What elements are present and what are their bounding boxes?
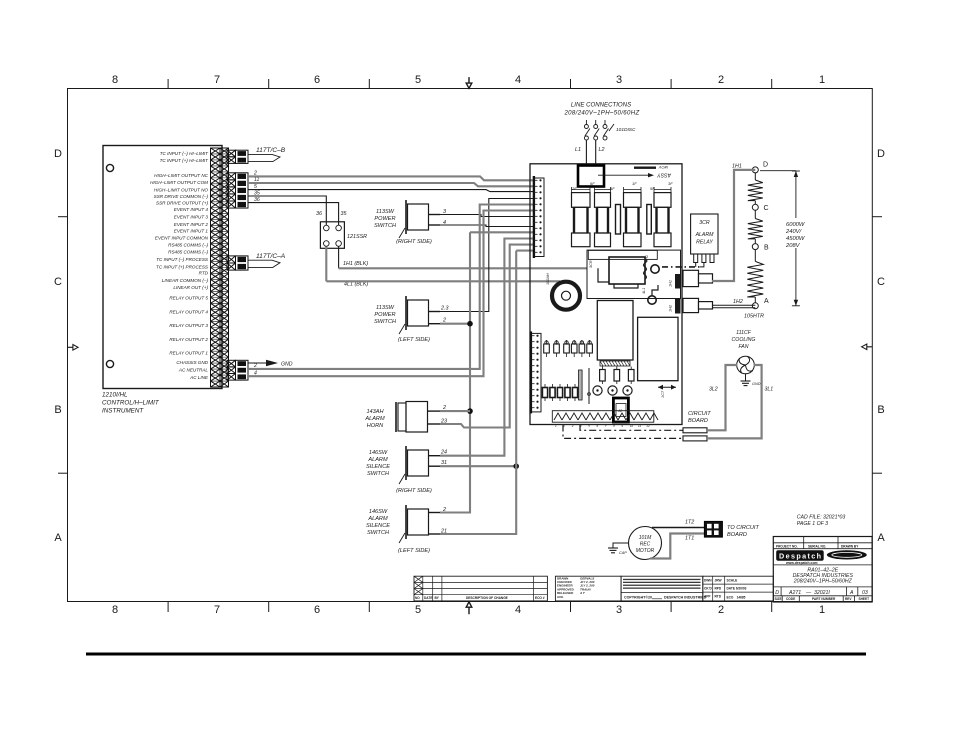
svg-text:(LEFT SIDE): (LEFT SIDE)	[398, 337, 430, 343]
svg-text:1CT: 1CT	[661, 390, 665, 398]
svg-text:ASSY: ASSY	[657, 172, 672, 178]
svg-text:INSTRUMENT: INSTRUMENT	[102, 407, 144, 414]
svg-text:3L2: 3L2	[709, 387, 718, 393]
svg-text:ALARM: ALARM	[364, 416, 385, 422]
svg-text:5F: 5F	[650, 186, 655, 191]
svg-text:A271: A271	[788, 590, 801, 596]
svg-text:101DISC: 101DISC	[616, 127, 636, 133]
svg-text:PROJECT NO.: PROJECT NO.	[776, 545, 798, 549]
svg-text:2: 2	[718, 604, 724, 616]
svg-text:36: 36	[254, 197, 260, 203]
svg-text:COPYRIGHT©: COPYRIGHT©	[624, 595, 648, 599]
svg-text:3L1: 3L1	[765, 387, 774, 393]
svg-text:ALARM: ALARM	[367, 516, 388, 522]
svg-text:BOARD: BOARD	[727, 532, 747, 538]
svg-text:HIGH–LIMIT OUTPUT NC: HIGH–LIMIT OUTPUT NC	[154, 173, 209, 178]
svg-text:208/240V–1PH–50/60HZ: 208/240V–1PH–50/60HZ	[793, 579, 853, 585]
svg-text:SWITCH: SWITCH	[374, 319, 397, 325]
svg-text:D: D	[54, 148, 62, 160]
svg-text:DWN: DWN	[704, 579, 712, 583]
svg-text:AC LINE: AC LINE	[189, 375, 209, 380]
svg-text:RPD: RPD	[715, 587, 722, 591]
svg-text:SWITCH: SWITCH	[367, 471, 390, 477]
svg-text:CHASSIS GND: CHASSIS GND	[176, 360, 208, 365]
svg-text:32021I: 32021I	[814, 590, 830, 596]
svg-text:1H1 (BLK): 1H1 (BLK)	[343, 261, 368, 267]
svg-text:ECO 14685: ECO 14685	[727, 596, 746, 600]
svg-text:C: C	[54, 276, 62, 288]
svg-text:105HTR: 105HTR	[744, 314, 764, 320]
svg-text:AC NEUTRAL: AC NEUTRAL	[178, 367, 209, 372]
svg-text:NO: NO	[415, 596, 420, 600]
svg-text:CAD FILE: 32021*03: CAD FILE: 32021*03	[797, 514, 846, 520]
svg-text:1: 1	[819, 74, 825, 86]
svg-text:AVG: AVG	[557, 595, 564, 599]
svg-text:RELAY OUTPUT 4: RELAY OUTPUT 4	[169, 309, 208, 314]
svg-text:3CR: 3CR	[699, 220, 710, 226]
svg-text:C: C	[877, 276, 885, 288]
svg-text:—: —	[805, 590, 812, 596]
svg-text:JRW: JRW	[715, 579, 722, 583]
svg-text:LINE CONNECTIONS: LINE CONNECTIONS	[571, 102, 631, 109]
svg-text:1H1: 1H1	[732, 164, 742, 170]
svg-text:3: 3	[616, 604, 622, 616]
svg-text:www.despatch.com: www.despatch.com	[785, 561, 818, 565]
svg-text:240V/: 240V/	[785, 229, 803, 235]
svg-text:TO CIRCUIT: TO CIRCUIT	[727, 525, 759, 531]
svg-text:ECO #: ECO #	[535, 596, 545, 600]
svg-text:6: 6	[314, 74, 320, 86]
svg-text:1T1: 1T1	[685, 536, 694, 542]
svg-text:CIRCUIT: CIRCUIT	[688, 411, 711, 417]
svg-text:POWER: POWER	[374, 312, 395, 318]
svg-text:1210I/HL: 1210I/HL	[102, 392, 128, 399]
svg-text:1H1: 1H1	[669, 280, 673, 287]
svg-text:117T/C–B: 117T/C–B	[256, 147, 286, 154]
svg-text:SSR DRIVE COMMON (–): SSR DRIVE COMMON (–)	[154, 194, 209, 199]
svg-text:SSR DRIVE OUTPUT (+): SSR DRIVE OUTPUT (+)	[156, 200, 208, 205]
svg-text:102AH: 102AH	[546, 273, 550, 285]
svg-text:DATE 6/20/03: DATE 6/20/03	[727, 587, 747, 591]
svg-text:LINEAR OUT (+): LINEAR OUT (+)	[173, 285, 208, 290]
svg-text:4: 4	[515, 604, 521, 616]
svg-text:35: 35	[341, 211, 348, 217]
svg-text:RTD: RTD	[199, 271, 209, 276]
svg-text:8: 8	[112, 604, 118, 616]
svg-text:B: B	[764, 245, 769, 252]
svg-text:(LEFT SIDE): (LEFT SIDE)	[398, 548, 430, 554]
svg-text:208/240V–1PH–50/60HZ: 208/240V–1PH–50/60HZ	[563, 110, 639, 117]
svg-text:6000W: 6000W	[786, 222, 805, 228]
svg-text:L2: L2	[599, 147, 605, 153]
svg-text:20: 20	[648, 595, 652, 599]
svg-text:4L1 (BLK): 4L1 (BLK)	[344, 282, 368, 288]
svg-text:L1: L1	[575, 147, 581, 153]
svg-text:HORN: HORN	[367, 423, 384, 429]
svg-text:DRAWN BY: DRAWN BY	[841, 545, 859, 549]
svg-text:4500W: 4500W	[786, 236, 805, 242]
svg-text:REC: REC	[640, 542, 651, 548]
svg-text:MOTOR: MOTOR	[636, 548, 655, 554]
svg-text:A: A	[54, 532, 62, 544]
svg-text:B: B	[877, 404, 884, 416]
svg-text:A: A	[877, 532, 885, 544]
svg-text:2: 2	[718, 74, 724, 86]
svg-text:GND: GND	[752, 382, 761, 386]
svg-text:RELAY OUTPUT 2: RELAY OUTPUT 2	[169, 337, 208, 342]
svg-text:(RIGHT SIDE): (RIGHT SIDE)	[396, 239, 432, 245]
svg-text:RS485 COMMS (–): RS485 COMMS (–)	[168, 243, 208, 248]
svg-text:3F: 3F	[668, 181, 673, 186]
svg-text:4F: 4F	[610, 186, 615, 191]
svg-text:1F: 1F	[632, 181, 637, 186]
svg-text:CONTROL/H–LIMIT: CONTROL/H–LIMIT	[102, 400, 160, 407]
svg-text:D: D	[763, 162, 768, 169]
svg-text:111CF: 111CF	[736, 330, 752, 336]
svg-text:SHEET: SHEET	[859, 597, 870, 601]
svg-text:A: A	[849, 590, 854, 596]
svg-text:TC INPUT (–) HI–LIMIT: TC INPUT (–) HI–LIMIT	[160, 151, 209, 156]
svg-text:HIGH–LIMIT OUTPUT COM: HIGH–LIMIT OUTPUT COM	[150, 180, 208, 185]
svg-text:11: 11	[638, 424, 641, 428]
svg-text:FAN: FAN	[739, 344, 749, 350]
svg-text:4L1: 4L1	[642, 288, 646, 294]
svg-text:GND: GND	[281, 362, 293, 368]
svg-text:6: 6	[314, 604, 320, 616]
svg-text:POWER: POWER	[374, 216, 395, 222]
svg-text:EVENT INPUT 1: EVENT INPUT 1	[174, 228, 209, 233]
svg-text:SWITCH: SWITCH	[367, 530, 390, 536]
svg-text:3: 3	[616, 74, 622, 86]
svg-text:BOARD: BOARD	[688, 418, 708, 424]
svg-text:03: 03	[862, 590, 868, 596]
svg-text:TC INPUT (+) PROCESS: TC INPUT (+) PROCESS	[156, 264, 209, 269]
svg-text:SCALE: SCALE	[727, 579, 738, 583]
svg-text:SERIAL NO.: SERIAL NO.	[808, 545, 826, 549]
svg-text:TC INPUT (+) HI–LIMIT: TC INPUT (+) HI–LIMIT	[160, 158, 210, 163]
svg-text:1T2: 1T2	[685, 520, 694, 526]
svg-text:113SW: 113SW	[376, 305, 395, 311]
svg-text:Despatch: Despatch	[779, 552, 821, 561]
svg-text:ALARM: ALARM	[367, 457, 388, 463]
svg-text:SIZE: SIZE	[775, 597, 782, 601]
svg-text:2: 2	[442, 318, 446, 324]
svg-text:6F: 6F	[590, 181, 595, 186]
svg-text:COOLING: COOLING	[732, 337, 756, 343]
svg-text:RS485 COMMS (–): RS485 COMMS (–)	[168, 250, 208, 255]
svg-text:12: 12	[646, 424, 650, 428]
svg-text:EVENT INPUT 2: EVENT INPUT 2	[174, 222, 209, 227]
svg-text:1: 1	[819, 604, 825, 616]
svg-text:1H2: 1H2	[733, 299, 743, 305]
svg-text:35: 35	[254, 190, 260, 196]
svg-text:A: A	[764, 298, 769, 305]
svg-text:RELAY: RELAY	[696, 240, 713, 246]
svg-text:D: D	[877, 148, 885, 160]
svg-text:RELAY OUTPUT 1: RELAY OUTPUT 1	[169, 351, 208, 356]
svg-text:4: 4	[515, 74, 521, 86]
svg-text:CODE: CODE	[786, 597, 795, 601]
svg-text:2F: 2F	[571, 186, 577, 191]
svg-text:5: 5	[254, 184, 257, 190]
svg-text:SWITCH: SWITCH	[374, 223, 397, 229]
svg-text:RELAY OUTPUT 3: RELAY OUTPUT 3	[169, 323, 208, 328]
svg-text:TC INPUT (–) PROCESS: TC INPUT (–) PROCESS	[156, 257, 209, 262]
svg-text:146SW: 146SW	[369, 450, 388, 456]
svg-text:ALARM: ALARM	[695, 232, 715, 238]
svg-text:D: D	[775, 590, 779, 596]
svg-text:DESCRIPTION OF CHANGE: DESCRIPTION OF CHANGE	[466, 596, 508, 600]
svg-text:SILENCE: SILENCE	[366, 464, 390, 470]
svg-text:7: 7	[214, 74, 220, 86]
svg-text:LINEAR COMMON (–): LINEAR COMMON (–)	[162, 278, 209, 283]
svg-text:8: 8	[112, 74, 118, 86]
svg-text:SILENCE: SILENCE	[366, 523, 390, 529]
svg-text:36: 36	[316, 211, 322, 217]
svg-text:CAP: CAP	[619, 551, 627, 555]
svg-text:117T/C–A: 117T/C–A	[256, 253, 286, 260]
svg-text:7: 7	[214, 604, 220, 616]
svg-text:101M: 101M	[639, 535, 652, 541]
svg-text:CK’D: CK’D	[704, 587, 712, 591]
svg-text:PAGE 1 OF 3: PAGE 1 OF 3	[797, 521, 828, 527]
svg-text:B: B	[54, 404, 61, 416]
svg-text:(RIGHT SIDE): (RIGHT SIDE)	[396, 488, 432, 494]
svg-text:121SSR: 121SSR	[347, 234, 367, 240]
svg-text:113SW: 113SW	[376, 209, 395, 215]
svg-text:1H1: 1H1	[645, 255, 649, 262]
svg-text:5: 5	[415, 604, 421, 616]
svg-text:EVENT INPUT 4: EVENT INPUT 4	[174, 207, 209, 212]
svg-text:RELAY OUTPUT 5: RELAY OUTPUT 5	[169, 296, 208, 301]
svg-text:2.3: 2.3	[440, 306, 449, 312]
svg-text:EVENT INPUT COMMON: EVENT INPUT COMMON	[155, 235, 209, 240]
svg-text:208V: 208V	[785, 243, 801, 249]
svg-text:5: 5	[415, 74, 421, 86]
svg-text:C: C	[764, 205, 769, 212]
svg-text:10: 10	[630, 424, 634, 428]
svg-text:3CR: 3CR	[589, 260, 593, 268]
svg-text:DESPATCH INDUSTRIES: DESPATCH INDUSTRIES	[664, 595, 707, 599]
svg-text:REV: REV	[845, 597, 852, 601]
svg-text:146SW: 146SW	[369, 509, 388, 515]
svg-text:PART NUMBER: PART NUMBER	[812, 597, 836, 601]
svg-text:EVENT INPUT 3: EVENT INPUT 3	[174, 215, 209, 220]
svg-text:RTD: RTD	[715, 595, 722, 599]
svg-text:HIGH–LIMIT OUTPUT NO: HIGH–LIMIT OUTPUT NO	[154, 187, 209, 192]
svg-text:1H2: 1H2	[669, 304, 673, 312]
svg-text:DATE: DATE	[424, 596, 432, 600]
svg-text:143AH: 143AH	[366, 409, 384, 415]
svg-text:MOV: MOV	[659, 165, 668, 170]
